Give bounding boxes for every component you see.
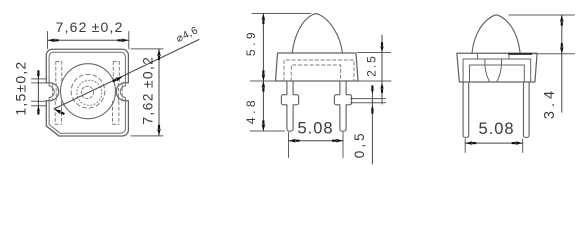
dimension 5.9: top arrow [262, 14, 266, 25]
svg-text:4.8: 4.8 [244, 97, 258, 124]
hidden lead top-left (dashed) [56, 62, 62, 84]
dimension 5.08 front: dimension line [289, 140, 344, 142]
svg-text:3.4: 3.4 [542, 87, 558, 119]
svg-text:5.08: 5.08 [478, 120, 514, 138]
dimension 7,62 right: top arrow [157, 49, 161, 60]
dimension 3.4: dimension line [561, 15, 563, 112]
dimension 5.9: bottom arrow [262, 70, 266, 81]
dimension 7,62 top: dimension line [48, 39, 129, 41]
front view hidden frame inner (dashed) [291, 65, 340, 81]
dimension 0.5: bottom arrow [371, 105, 374, 113]
dimension 7,62 top: right arrow [118, 39, 129, 43]
reflector circle (dashed) [71, 74, 105, 108]
leader arrow upper-right [112, 76, 123, 82]
dimension 0.5: top arrow [371, 86, 374, 94]
hidden lead bottom-right (dashed) [113, 102, 119, 125]
side view inner step 1 [463, 59, 531, 82]
lens base circle (solid) [61, 64, 116, 119]
dimension 5.08 side: right arrow [512, 141, 523, 145]
dimension 3.4: top arrow [560, 15, 564, 26]
side view tick b [508, 53, 510, 59]
dimension 5.08 front: extension lines [289, 133, 344, 158]
side view flange [457, 53, 537, 82]
dimension 1,5 left: extension lines [32, 79, 47, 106]
side view right leg [524, 82, 530, 137]
svg-text:7,62 ±0,2: 7,62 ±0,2 [56, 19, 124, 35]
top view package outer outline [46, 49, 128, 136]
svg-text:7,62 ±0,2: 7,62 ±0,2 [140, 56, 156, 125]
dimension 3.4: bottom arrow [560, 43, 564, 54]
svg-text:5.08: 5.08 [297, 120, 333, 138]
top view chamfer corner line bottom-left [46, 126, 59, 136]
hidden lead right mid (dashed) [118, 84, 122, 101]
front view left leg [281, 81, 298, 131]
side view cup right edge [497, 59, 502, 82]
side view inner step 2 [470, 65, 525, 82]
dimension 5.08 side: extension lines [465, 139, 523, 153]
dimension 4.8: extension line legs bottom [250, 130, 285, 132]
svg-text:1,5±0,2: 1,5±0,2 [12, 61, 28, 116]
dimension 3.4: lower extension line [534, 53, 575, 55]
dimension 1,5 left: dimension line [37, 71, 39, 115]
dimension 5.08 side: left arrow [465, 141, 476, 145]
side view tick a [476, 53, 478, 59]
dimension 7,62 top: left arrow [48, 39, 59, 43]
dimension 4.8: top arrow [262, 81, 266, 92]
dimension 2.5: dimension line [381, 35, 383, 104]
dimension 1,5 left: top arrow [37, 70, 40, 79]
dimension 1,5 left: bottom arrow [37, 106, 40, 115]
leader line for diameter 4.6 [54, 40, 199, 110]
side view cup left edge [485, 59, 490, 82]
dimension 5.9/4.8 dimension line [262, 14, 264, 132]
front view body [276, 53, 359, 81]
dimension 5.08 front: left arrow [289, 139, 300, 143]
top view package inner contour [49, 52, 125, 133]
dimension 2.5: bottom arrow [380, 83, 383, 93]
front view right leg [334, 81, 351, 131]
dimension 3.4: top extension line [509, 14, 575, 16]
leader arrow lower-left [54, 109, 65, 115]
dimension 2.5: top arrow [380, 42, 383, 52]
dimension 5.08 side: dimension line [465, 142, 523, 144]
dimension 7,62 top: extension lines [48, 32, 129, 49]
dimension 7,62 right: bottom arrow [157, 125, 161, 136]
hidden lead left mid (dashed) [53, 84, 57, 101]
svg-text:5.9: 5.9 [244, 29, 258, 56]
hidden lead bottom-left (dashed) [55, 102, 61, 125]
hidden lead top-right (dashed) [113, 62, 119, 84]
dimension 4.8: bottom arrow [262, 120, 266, 131]
svg-text:0,5: 0,5 [352, 130, 367, 158]
dimension 7,62 right: extension lines [131, 49, 163, 136]
dimension 0.5: extension lines [351, 99, 386, 103]
dimension 0.5: dimension line [371, 86, 373, 165]
die circle (dashed) [81, 86, 93, 98]
side view dome [472, 15, 520, 53]
front view hidden frame outer (dashed) [284, 60, 354, 81]
dimension 5.08 front: right arrow [332, 139, 343, 143]
dimension 7,62 right: dimension line [158, 49, 160, 136]
dimension 2.5: extension lines [358, 53, 392, 82]
dimension 3.4: lower extension dark segment [509, 53, 532, 55]
side view left leg [463, 82, 469, 138]
front view dome [292, 14, 342, 53]
svg-text:2.5: 2.5 [365, 54, 379, 77]
svg-text:⌀4,6: ⌀4,6 [174, 24, 200, 45]
inner circle (dotted) [77, 80, 102, 105]
dimension 5.9: extension lines [251, 14, 311, 82]
